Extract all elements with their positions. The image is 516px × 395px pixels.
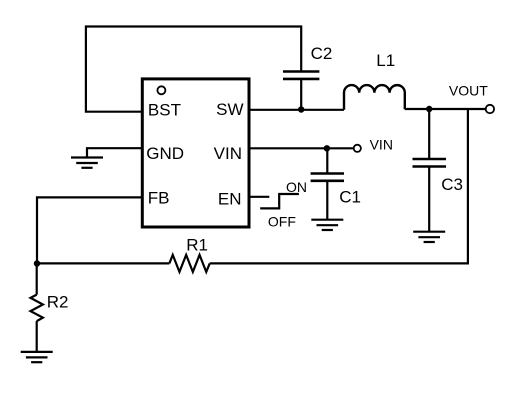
wire FB node to R1 bbox=[37, 262, 169, 264]
svg-text:VIN: VIN bbox=[370, 137, 393, 153]
svg-text:OFF: OFF bbox=[268, 214, 296, 230]
svg-text:VOUT: VOUT bbox=[449, 83, 488, 99]
svg-text:EN: EN bbox=[218, 189, 242, 208]
terminal VIN bbox=[354, 145, 361, 152]
resistor R1 bbox=[169, 255, 209, 272]
wire R1 to VOUT feedback riser bbox=[210, 109, 468, 263]
wire VIN pin to terminal bbox=[249, 147, 354, 149]
terminal VOUT bbox=[486, 105, 494, 113]
wire VOUT node to C3 bbox=[428, 109, 430, 159]
svg-text:R1: R1 bbox=[186, 236, 208, 255]
node VOUT junction bbox=[426, 106, 432, 112]
wire C1 to ground bbox=[326, 181, 328, 220]
svg-text:L1: L1 bbox=[376, 51, 395, 70]
wire FB node to R2 bbox=[36, 264, 38, 295]
ground C1 bbox=[311, 220, 343, 230]
wire L1 to VOUT terminal bbox=[405, 108, 486, 110]
capacitor C2 bbox=[283, 72, 319, 79]
svg-text:C3: C3 bbox=[441, 175, 463, 194]
capacitor C3 bbox=[413, 159, 447, 167]
resistor R2 bbox=[31, 295, 43, 322]
ground C3 bbox=[413, 232, 445, 242]
wire FB pin to feedback node bbox=[37, 197, 142, 263]
wire C3 to ground bbox=[428, 167, 430, 232]
node VIN junction bbox=[324, 145, 330, 151]
wire VIN node to C1 bbox=[326, 148, 328, 173]
inductor L1 bbox=[344, 85, 405, 110]
node SW junction bbox=[298, 106, 304, 112]
ground R2 bbox=[21, 352, 53, 362]
wire GND pin to ground bbox=[87, 148, 142, 157]
wire EN pin stub bbox=[249, 196, 269, 198]
svg-text:FB: FB bbox=[148, 189, 170, 208]
ground GND pin bbox=[71, 158, 103, 168]
EN on-off step waveform bbox=[260, 194, 299, 208]
svg-text:C1: C1 bbox=[339, 188, 361, 207]
svg-text:R2: R2 bbox=[47, 293, 69, 312]
wire SW pin to L1 bbox=[249, 109, 344, 111]
capacitor C1 bbox=[311, 174, 344, 181]
pin 1 marker bbox=[157, 86, 165, 94]
svg-text:VIN: VIN bbox=[214, 144, 242, 163]
svg-text:SW: SW bbox=[216, 100, 243, 119]
svg-text:BST: BST bbox=[148, 100, 181, 119]
op-amp U1 bbox=[142, 79, 249, 227]
wire R2 to ground bbox=[36, 321, 38, 352]
svg-text:C2: C2 bbox=[311, 44, 333, 63]
node FB junction bbox=[34, 260, 40, 266]
wire C2 bottom to SW node bbox=[300, 79, 302, 110]
svg-text:ON: ON bbox=[286, 179, 307, 195]
wire BST to C2 top bbox=[86, 27, 301, 112]
svg-text:GND: GND bbox=[146, 144, 184, 163]
